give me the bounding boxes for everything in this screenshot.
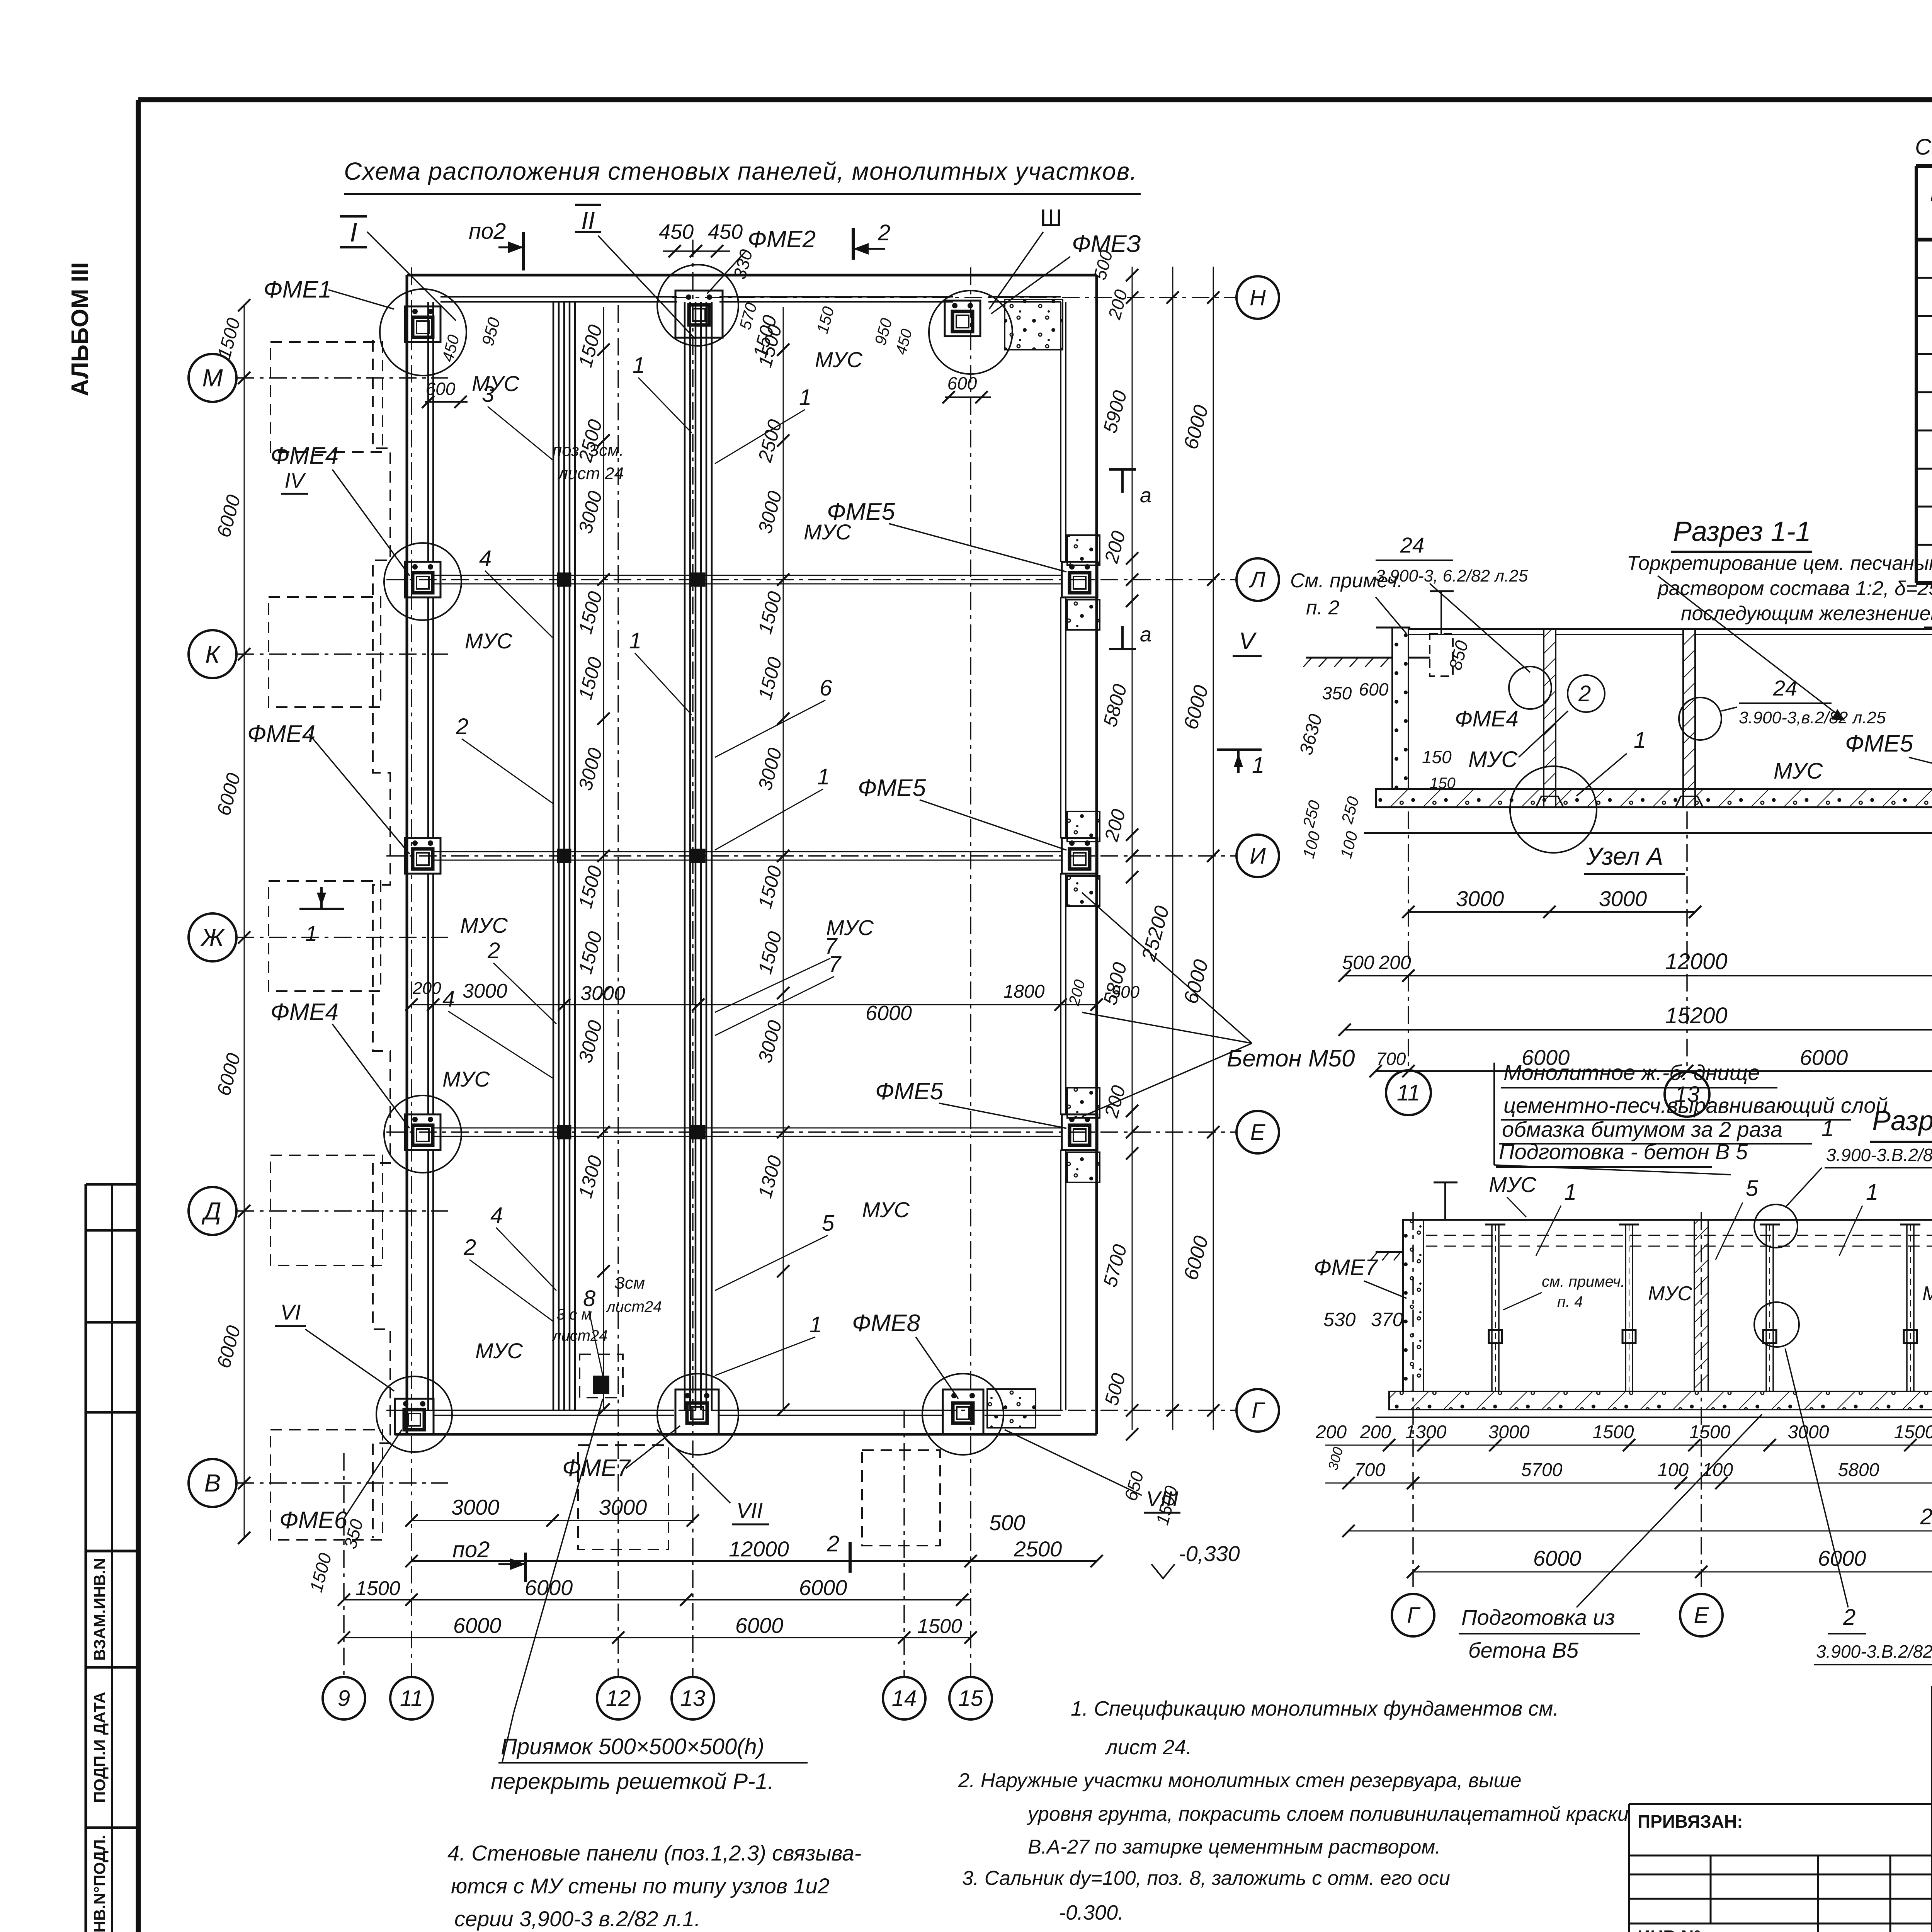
plan: inner vertical dimension chains [574,307,789,1416]
svg-text:Е: Е [1250,1120,1266,1145]
svg-text:ФМЕ5: ФМЕ5 [875,1078,944,1105]
svg-text:ФМЕ2: ФМЕ2 [748,226,816,253]
specification table grid [1916,166,1932,583]
svg-text:раствором состава 1:2, δ=25 с: раствором состава 1:2, δ=25 с [1657,577,1932,600]
svg-text:МУС: МУС [460,913,508,937]
svg-text:6000: 6000 [453,1613,502,1638]
svg-text:В: В [204,1469,221,1497]
svg-text:1300: 1300 [1405,1422,1447,1442]
svg-text:15: 15 [958,1686,983,1711]
svg-text:3.900-3,в.2/82 л.25: 3.900-3,в.2/82 л.25 [1739,708,1886,727]
section 1-1 left dimensions [1296,638,1472,861]
svg-text:2: 2 [827,1531,839,1556]
plan: horizontal joint bands [433,573,1061,1138]
svg-text:3000: 3000 [599,1495,647,1519]
svg-text:VII: VII [736,1498,763,1522]
svg-text:1500: 1500 [1593,1422,1634,1442]
section 1-1 dashed column tops [1430,580,1932,676]
svg-text:ФМЕ6: ФМЕ6 [279,1507,348,1534]
svg-text:ФМЕ5: ФМЕ5 [1845,730,1913,757]
svg-text:п. 2: п. 2 [1306,597,1340,619]
svg-text:700: 700 [1376,1049,1406,1069]
svg-text:9: 9 [338,1686,350,1711]
svg-text:последующим железнением: последующим железнением [1681,602,1932,625]
svg-text:II: II [581,206,595,234]
svg-text:по2: по2 [469,219,506,244]
svg-text:Д: Д [201,1197,221,1225]
plan: right dimension chains [1099,267,1219,1527]
svg-text:2500: 2500 [1014,1537,1062,1561]
section 1-1 right walls [1924,628,1932,833]
svg-text:-0.300.: -0.300. [1059,1901,1124,1924]
svg-text:МУС: МУС [1774,759,1823,784]
svg-text:450: 450 [659,220,694,243]
plan: right axis circles [1236,276,1279,319]
svg-text:МУС: МУС [465,629,512,653]
svg-text:ФМЕ4: ФМЕ4 [270,442,338,469]
svg-text:700: 700 [1354,1460,1385,1480]
svg-text:МУС: МУС [1489,1172,1536,1197]
svg-text:6000: 6000 [1818,1546,1866,1570]
plan: dashed pits below [578,1354,940,1549]
svg-text:1800: 1800 [1003,981,1045,1002]
svg-text:М: М [202,364,223,392]
svg-text:1: 1 [817,764,830,789]
svg-text:1500: 1500 [1894,1422,1932,1442]
section 1-1 axis circles [1386,811,1932,1117]
svg-text:6000: 6000 [1800,1045,1848,1070]
svg-text:200: 200 [412,979,441,998]
section 2-2 ФМЕ7 ground left [1434,1175,1932,1220]
svg-text:лист 24.: лист 24. [1105,1736,1192,1759]
section 2-2 подготовка label [1459,1349,1932,1665]
plan: bottom axis circles [323,1677,365,1719]
plan: right wall [1061,275,1097,1434]
svg-text:3000: 3000 [451,1495,500,1519]
svg-text:500: 500 [989,1510,1025,1535]
plan: horizontal axis lines [236,298,1235,1483]
section 2-2 title [1870,1105,1932,1142]
svg-text:100: 100 [1658,1460,1689,1480]
svg-text:1: 1 [1821,1116,1834,1141]
svg-text:МУС: МУС [1922,1282,1932,1305]
svg-text:5700: 5700 [1521,1460,1563,1480]
svg-text:3 с м: 3 с м [556,1306,592,1323]
plan: VI mark [275,1300,394,1391]
svg-text:Зсм: Зсм [614,1274,645,1293]
svg-text:200: 200 [1378,952,1411,973]
svg-text:2: 2 [463,1235,476,1260]
svg-text:К: К [205,640,221,668]
svg-text:15200: 15200 [1665,1003,1727,1028]
svg-text:3.900-3.В.2/82,л.1: 3.900-3.В.2/82,л.1 [1826,1145,1932,1165]
svg-text:а: а [1140,623,1151,646]
svg-text:1: 1 [1634,728,1646,753]
svg-text:И: И [1250,844,1266,869]
svg-text:1500: 1500 [917,1615,962,1638]
svg-text:обмазка битумом за 2 раза: обмазка битумом за 2 раза [1502,1117,1782,1141]
svg-text:100: 100 [1702,1460,1733,1480]
plan: vertical axis lines [344,240,971,1677]
plan: dashed foundation outline on the left [269,340,390,1540]
svg-text:Г: Г [1407,1603,1421,1628]
svg-text:ФМЕ7: ФМЕ7 [562,1455,631,1481]
svg-text:6000: 6000 [866,1002,912,1025]
svg-text:цементно-песч.выравнивающий сл: цементно-песч.выравнивающий слой [1503,1093,1888,1117]
svg-text:ПРИВЯЗАН:: ПРИВЯЗАН: [1638,1811,1743,1832]
svg-text:4: 4 [490,1203,503,1228]
section 1-1 title [1671,516,1812,552]
svg-text:Е: Е [1694,1603,1709,1628]
svg-text:Разрез 1-1: Разрез 1-1 [1673,516,1811,547]
section 2-2 note block монолитное днище [1494,1060,1888,1175]
svg-text:2: 2 [1843,1605,1855,1630]
svg-text:3000: 3000 [1788,1422,1829,1442]
section 2-2 slab [1376,1391,1932,1417]
svg-text:ются с МУ стены по типу: ются с МУ стены по типу узлов 1и2 [451,1874,830,1898]
svg-text:1500: 1500 [1689,1422,1731,1442]
svg-text:500: 500 [1342,952,1374,973]
svg-text:Н: Н [1250,285,1266,310]
notes 1-3 [958,1697,1629,1924]
section 2-2 top edge and dashed lines [1403,1220,1932,1246]
plan: left axis circles [189,354,236,402]
svg-text:1: 1 [799,385,811,410]
svg-text:1. Спецификацию монолитных ф: 1. Спецификацию монолитных фундаментов с… [1071,1697,1559,1720]
svg-text:ВЗАМ.ИНВ.N: ВЗАМ.ИНВ.N [90,1558,109,1661]
svg-text:1: 1 [305,921,317,946]
svg-text:12000: 12000 [1665,949,1727,974]
svg-text:4. Стеновые панели (поз.1,2.: 4. Стеновые панели (поз.1,2.3) связыва- [447,1841,861,1865]
svg-text:1: 1 [1564,1180,1577,1205]
svg-text:6: 6 [820,675,832,701]
svg-text:2: 2 [1578,681,1591,706]
svg-text:V: V [1239,628,1257,655]
note 4 [447,1841,861,1931]
svg-text:Марка,: Марка, [1930,183,1932,206]
svg-text:25000: 25000 [1920,1504,1932,1529]
svg-text:Монолитное ж.-б. днище: Монолитное ж.-б. днище [1503,1060,1760,1085]
plan: partition wall bundle 2 [685,302,712,1410]
svg-text:14: 14 [892,1686,917,1711]
section 1-1 торкретирование note [1627,552,1932,721]
section 2-2 inner labels [1314,1255,1932,1452]
svg-text:ФМЕ8: ФМЕ8 [852,1310,920,1337]
section 2-2 axis circles [1392,1212,1932,1636]
svg-text:I: I [350,217,357,247]
svg-text:ИНВ.N°: ИНВ.N° [1638,1927,1701,1932]
plan: monolithic concrete patches on right wall [987,299,1100,1428]
svg-text:см. примеч.: см. примеч. [1542,1273,1625,1290]
svg-text:24: 24 [1400,533,1424,557]
svg-text:Торкретирование цем. песчаным: Торкретирование цем. песчаным [1627,552,1932,575]
section 1-1 labels [1290,533,1932,927]
svg-text:3000: 3000 [1456,886,1504,911]
svg-text:3: 3 [482,382,494,407]
svg-text:150: 150 [1422,747,1452,767]
svg-text:ФМЕ5: ФМЕ5 [858,775,926,801]
svg-text:а: а [1140,484,1151,507]
section 1-1 ground line [1303,658,1430,667]
plan: mark V and section 1 mark [1109,469,1264,778]
plan: section 1 mark left [299,887,344,946]
svg-text:2: 2 [878,220,890,245]
svg-text:600: 600 [426,379,456,399]
section 1-1 bottom dimensions [1299,798,1932,1077]
svg-text:ФМЕ4: ФМЕ4 [1455,706,1519,731]
svg-text:1: 1 [1252,753,1264,778]
svg-text:ФМЕ4: ФМЕ4 [270,999,338,1026]
svg-text:450: 450 [708,220,743,243]
plan: left dimension chain [213,299,250,1544]
svg-text:-0,330: -0,330 [1179,1541,1240,1566]
svg-text:Л: Л [1248,567,1265,592]
svg-text:3.900-3, 6.2/82 л.25: 3.900-3, 6.2/82 л.25 [1376,566,1528,585]
svg-text:МУС: МУС [815,347,862,372]
plan: bottom section marks [452,1430,1240,1582]
svg-text:5: 5 [1746,1176,1759,1201]
plan: position number labels [442,353,842,1376]
svg-text:серии 3,900-3 в.2/82 л.1.: серии 3,900-3 в.2/82 л.1. [454,1906,701,1931]
section 1-1 left wall [1376,628,1544,789]
svg-text:МУС: МУС [472,371,519,396]
svg-text:3.900-3.В.2/82,л.1: 3.900-3.В.2/82,л.1 [1816,1641,1932,1662]
svg-text:IV: IV [284,469,306,492]
svg-text:VI: VI [281,1300,301,1324]
svg-text:200: 200 [1360,1422,1391,1442]
svg-text:лист24: лист24 [606,1298,662,1315]
plan: section marks and top labels [340,205,1131,408]
section 2-2 wall panels [1485,1225,1932,1391]
svg-text:поз. Зсм.: поз. Зсм. [553,441,624,460]
vertical stamp labels [90,1558,109,1932]
section 2-2 callout circles [1754,1204,1799,1347]
svg-text:МУС: МУС [1648,1282,1692,1305]
svg-text:3000: 3000 [463,980,507,1002]
svg-text:Бетон М50: Бетон М50 [1227,1045,1355,1072]
svg-text:по2: по2 [452,1537,490,1562]
svg-text:11: 11 [1397,1080,1420,1105]
svg-text:Узел А: Узел А [1586,842,1663,870]
plan: interior dimension row [405,978,1140,1025]
svg-text:Схема расположения стеновых па: Схема расположения стеновых панелей, мон… [344,157,1138,185]
svg-text:370: 370 [1371,1309,1403,1330]
svg-text:ИНВ.N°ПОДЛ.: ИНВ.N°ПОДЛ. [90,1835,109,1932]
svg-text:Г: Г [1252,1398,1265,1423]
svg-text:2: 2 [456,714,468,739]
left margin stamp boxes [86,1184,138,1932]
svg-text:13: 13 [680,1686,706,1711]
svg-text:МУС: МУС [1468,747,1518,772]
svg-text:ФМЕ7: ФМЕ7 [1314,1255,1378,1280]
svg-text:2. Наружные участки монолитн: 2. Наружные участки монолитных стен резе… [958,1769,1522,1792]
specification table header text [1930,183,1932,233]
svg-text:Приямок 500×500×500(h): Приямок 500×500×500(h) [501,1734,764,1759]
svg-text:Ш: Ш [1040,205,1062,231]
svg-text:3. Сальник dу=100, поз. 8,: 3. Сальник dу=100, поз. 8, заложить с от… [962,1867,1450,1889]
svg-text:МУС: МУС [475,1338,523,1363]
svg-text:200: 200 [1315,1422,1347,1442]
svg-text:МУС: МУС [442,1067,490,1091]
svg-text:1: 1 [1866,1180,1878,1205]
svg-text:бетона В5: бетона В5 [1468,1638,1579,1662]
section 2-2 bottom dimension chains [1315,1422,1932,1578]
plan: foundation blocks ФМЕ with callout circles [376,265,1097,1455]
svg-text:7: 7 [825,934,838,959]
plan: bottom dimension chains [306,1495,1103,1644]
svg-text:п. 4: п. 4 [1557,1293,1583,1310]
svg-text:1: 1 [629,628,641,653]
svg-text:ФМЕ1: ФМЕ1 [264,276,332,303]
plan: partition wall bundle 1 [553,302,575,1410]
svg-text:1: 1 [810,1312,822,1337]
svg-text:лист 24: лист 24 [557,464,624,483]
svg-text:3000: 3000 [1599,886,1647,911]
section 2-2 top labels [1489,1116,1932,1260]
plan title [344,157,1141,194]
svg-text:4: 4 [479,546,492,571]
svg-text:АЛЬБОМ III: АЛЬБОМ III [67,262,94,396]
svg-text:ПОДП.И ДАТА: ПОДП.И ДАТА [90,1692,109,1803]
svg-text:11: 11 [400,1686,423,1711]
section 1-1 inner panels [1534,629,1932,807]
plan: top wall [407,275,1097,302]
svg-text:600: 600 [1359,679,1389,699]
svg-text:Спецификация к схеме расположе: Спецификация к схеме расположения стенов… [1915,134,1932,160]
svg-text:В.А-27 по затирке цементным: В.А-27 по затирке цементным раствором. [1028,1836,1441,1858]
svg-text:1500: 1500 [355,1577,400,1600]
svg-text:350: 350 [1322,683,1352,703]
svg-text:3000: 3000 [580,982,625,1005]
plan: left wall [407,275,433,1434]
svg-text:3000: 3000 [1488,1422,1530,1442]
svg-text:уровня грунта, покрасить сло: уровня грунта, покрасить слоем поливинил… [1027,1803,1629,1825]
svg-text:530: 530 [1323,1309,1356,1330]
svg-text:5800: 5800 [1838,1460,1879,1480]
svg-text:Подготовка из: Подготовка из [1461,1605,1615,1629]
section 1-1 slab [1364,789,1932,833]
plan: labels ФМЕ [247,226,1141,1534]
приямок note [491,1399,808,1794]
svg-text:4: 4 [442,986,455,1012]
section 2-2 left wall [1371,1220,1423,1391]
svg-text:6000: 6000 [1533,1546,1582,1570]
section 2-2 interior walls [1694,1220,1932,1391]
svg-text:12: 12 [606,1686,631,1711]
svg-text:Ж: Ж [200,923,225,951]
svg-text:2: 2 [487,938,500,963]
svg-text:МУС: МУС [804,520,851,544]
svg-text:МУС: МУС [862,1197,910,1222]
plan: bottom wall [395,1410,1097,1434]
svg-text:Подготовка - бетон В 5: Подготовка - бетон В 5 [1499,1139,1748,1164]
svg-text:24: 24 [1773,676,1797,700]
svg-text:6000: 6000 [735,1613,784,1638]
svg-text:лист24: лист24 [552,1327,608,1344]
svg-text:600: 600 [947,373,977,393]
svg-text:12000: 12000 [729,1537,789,1561]
svg-text:6000: 6000 [799,1575,847,1600]
svg-text:перекрыть решеткой Р-1.: перекрыть решеткой Р-1. [491,1769,774,1794]
plan: Бетон М50 label with leaders [1082,893,1355,1117]
section 1-1 callout узел А circle [1510,766,1685,874]
svg-text:1: 1 [633,353,645,378]
svg-text:150: 150 [1430,775,1456,792]
plan: МУС labels [442,347,910,1363]
title block привязан area [1629,1804,1932,1932]
svg-text:ФМЕ4: ФМЕ4 [247,721,315,747]
svg-text:5: 5 [822,1211,835,1236]
